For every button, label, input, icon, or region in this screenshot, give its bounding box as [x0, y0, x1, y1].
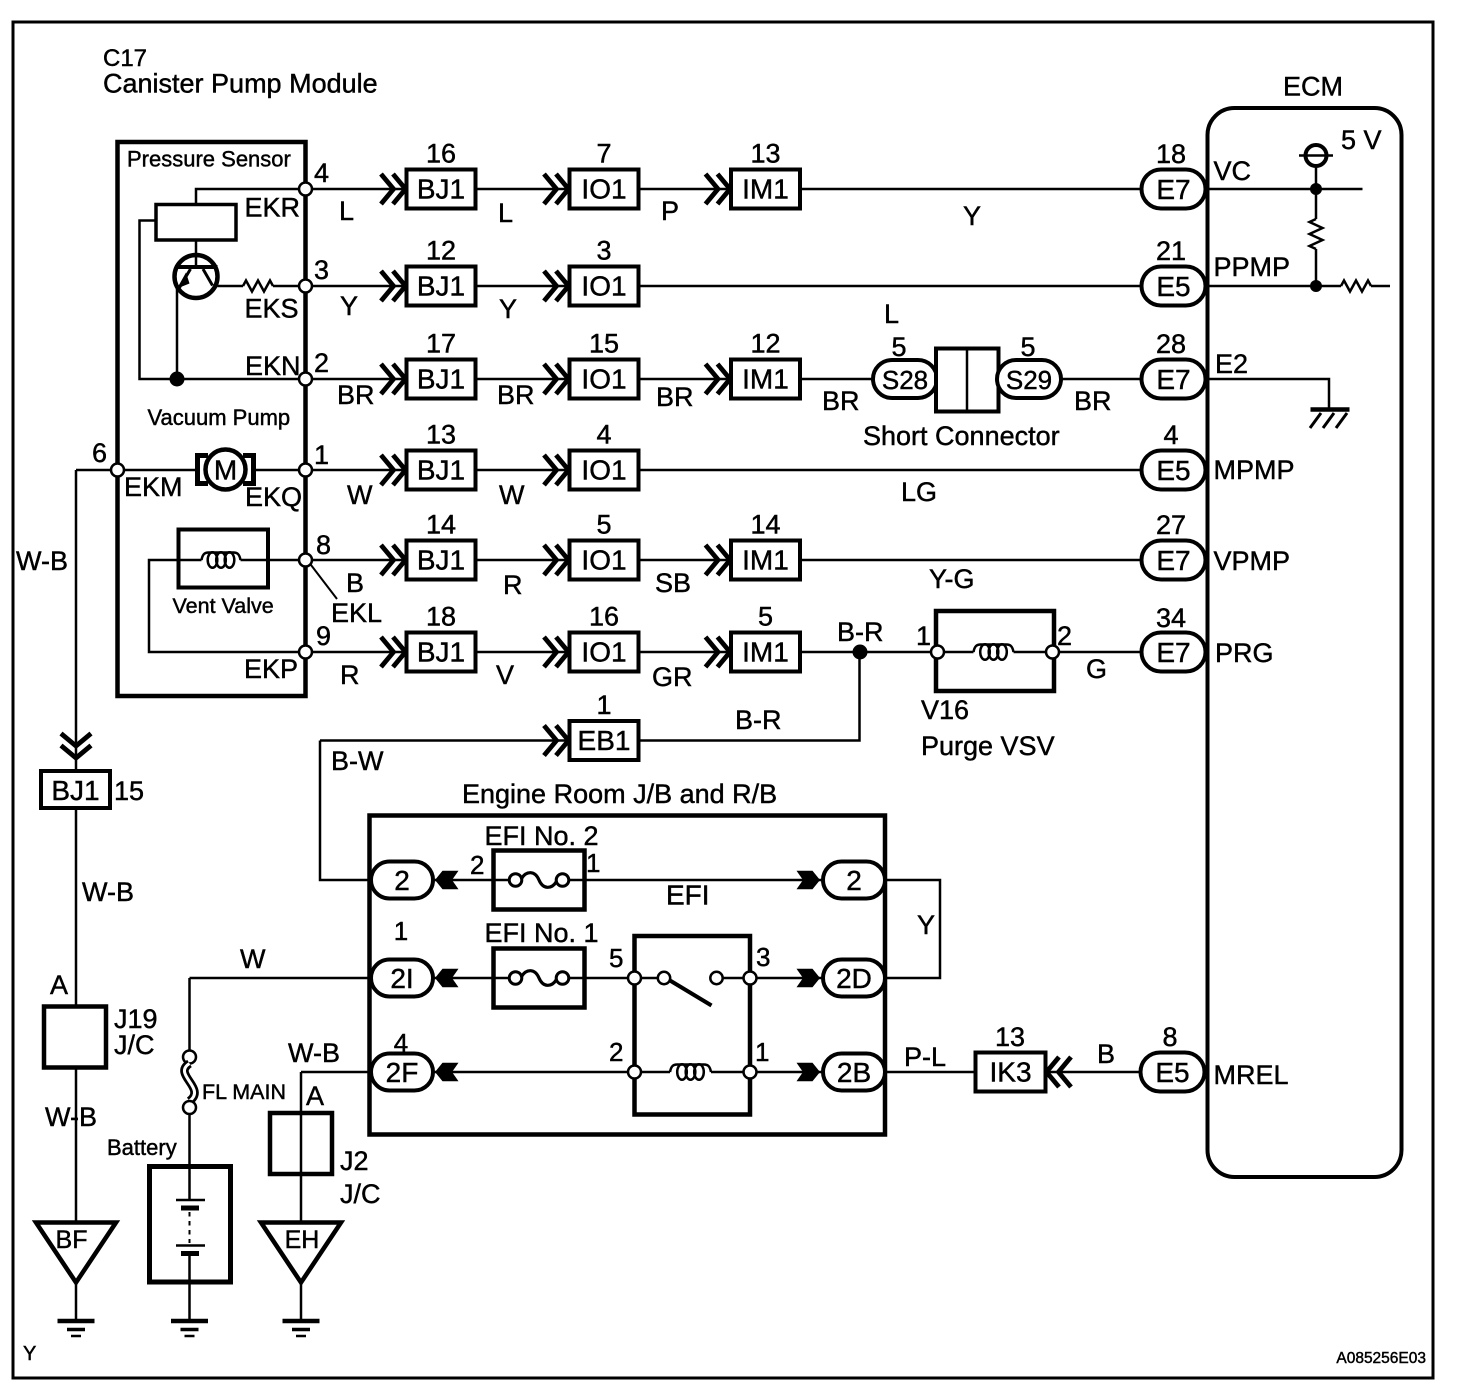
svg-text:2: 2 [470, 850, 484, 880]
svg-text:13: 13 [995, 1022, 1025, 1052]
connector BJ1 row3 [381, 364, 394, 394]
wire W from FL MAIN to 2I [190, 977, 372, 980]
ECM box [1208, 108, 1402, 1177]
svg-text:18: 18 [1156, 139, 1186, 169]
ECM terminal E7 pin 27 [1142, 541, 1206, 580]
svg-text:IO1: IO1 [581, 364, 626, 395]
svg-text:Y: Y [917, 910, 935, 940]
svg-text:5: 5 [596, 510, 611, 540]
V16 pin 1 node [931, 646, 944, 659]
svg-text:A: A [50, 970, 68, 1000]
svg-text:1: 1 [394, 916, 408, 946]
svg-text:14: 14 [750, 510, 780, 540]
svg-text:BJ1: BJ1 [417, 271, 465, 302]
engine room J/B box [370, 816, 886, 1135]
svg-text:IO1: IO1 [581, 545, 626, 576]
wire IM1 to junction B-R [800, 651, 860, 654]
junction pressure sensor common [170, 372, 185, 387]
V16 purge VSV body [936, 611, 1054, 691]
ECM terminal E7 pin 28 [1142, 360, 1206, 399]
junction J2 [270, 1113, 332, 1174]
wire EB1 to junction B-R [639, 659, 860, 741]
svg-text:J2: J2 [340, 1146, 369, 1176]
svg-text:4: 4 [1163, 420, 1178, 450]
vent valve coil [202, 553, 241, 561]
wire EKP R to BJ1 [312, 651, 407, 654]
svg-text:R: R [340, 660, 360, 690]
wire BJ1 to IO1 row2 (Y) [476, 285, 570, 288]
svg-text:A085256E03: A085256E03 [1336, 1350, 1426, 1367]
svg-text:J/C: J/C [340, 1179, 381, 1209]
relay coil [642, 1064, 743, 1080]
ground point BF [36, 1223, 116, 1283]
wire IK3 to 2B (P-L) [885, 1071, 976, 1074]
svg-text:2F: 2F [386, 1057, 419, 1088]
wire EFI fuse to relay contact (Y) [885, 880, 940, 978]
svg-text:2: 2 [394, 865, 410, 896]
svg-text:L: L [339, 196, 354, 226]
earth ground EH [283, 1319, 320, 1324]
connector IM1 row3 [706, 364, 719, 394]
junction connector BJ1 row1 [381, 174, 394, 204]
svg-text:IM1: IM1 [742, 174, 789, 205]
svg-text:15: 15 [589, 329, 619, 359]
svg-text:9: 9 [316, 621, 331, 651]
svg-text:P: P [661, 196, 679, 226]
wire EKN BR to BJ1 [312, 378, 407, 381]
svg-text:EKL: EKL [331, 598, 382, 628]
wire J2 to EH ground [300, 1174, 303, 1222]
5V power symbol [1299, 145, 1333, 166]
fuse EFI No. 1 [433, 949, 635, 1008]
ECM terminal E7 pin 34 [1142, 633, 1206, 672]
svg-text:S28: S28 [882, 365, 928, 395]
wire E5 to IK3 (B) [1046, 1071, 1141, 1074]
pin 8 node [299, 554, 312, 567]
svg-text:Purge VSV: Purge VSV [921, 731, 1055, 761]
wire IO1 to IM1 row6 (GR) [639, 651, 732, 654]
relay contact pin 3 node [744, 972, 757, 985]
junction B-R [853, 645, 868, 660]
svg-text:E5: E5 [1156, 271, 1190, 302]
wire motor to pin 1 [254, 469, 300, 472]
arrow into terminal 2F [435, 1063, 459, 1082]
svg-text:BJ1: BJ1 [51, 775, 99, 806]
svg-text:EKQ: EKQ [245, 482, 302, 512]
canister pump module C17 box [118, 142, 306, 696]
arrow into terminal 2I [435, 969, 459, 988]
svg-text:E7: E7 [1156, 637, 1190, 668]
svg-text:16: 16 [426, 139, 456, 169]
svg-text:W-B: W-B [16, 546, 68, 576]
svg-text:Y: Y [963, 201, 981, 231]
wire W-B from 2F to J2 [300, 1072, 303, 1113]
svg-text:L: L [498, 198, 513, 228]
svg-text:Vent Valve: Vent Valve [173, 594, 274, 618]
short connector body [936, 349, 999, 412]
svg-text:EKP: EKP [244, 654, 298, 684]
svg-text:14: 14 [426, 510, 456, 540]
svg-text:27: 27 [1156, 510, 1186, 540]
connector IO1 row2 [544, 271, 557, 301]
pin 6 node EKM [111, 464, 124, 477]
wire EKR L to BJ1 [312, 188, 407, 191]
svg-text:FL MAIN: FL MAIN [202, 1080, 286, 1104]
svg-text:1: 1 [596, 690, 611, 720]
svg-text:17: 17 [426, 329, 456, 359]
svg-text:VPMP: VPMP [1214, 546, 1291, 576]
battery [150, 1167, 231, 1320]
connector BJ1 row6 [381, 637, 394, 667]
wire B-W down to junction block [320, 741, 371, 881]
svg-text:5: 5 [609, 943, 623, 973]
svg-text:S29: S29 [1006, 365, 1052, 395]
relay coil pin 1 node [744, 1066, 757, 1079]
wire IM1 to ECM VPMP (Y-G) [800, 559, 1142, 562]
svg-text:B-W: B-W [331, 746, 384, 776]
terminal 2B [823, 1054, 885, 1091]
svg-text:V16: V16 [921, 695, 969, 725]
relay contact node right [710, 972, 722, 984]
svg-text:Y: Y [340, 291, 358, 321]
svg-text:W: W [240, 944, 266, 974]
wire IO1 to IM1 row3 (BR) [639, 378, 732, 381]
svg-text:Pressure Sensor: Pressure Sensor [127, 147, 291, 172]
connector IK3 [976, 1053, 1046, 1092]
svg-text:2: 2 [846, 865, 862, 896]
wire IM1 to S28 (BR) [800, 378, 873, 381]
svg-text:15: 15 [114, 776, 144, 806]
wire EKL B to BJ1 [312, 559, 407, 562]
vacuum pump motor M1 [198, 450, 254, 490]
svg-text:G: G [1086, 654, 1107, 684]
svg-text:13: 13 [750, 139, 780, 169]
svg-text:4: 4 [596, 420, 611, 450]
wire J19 to BF ground [75, 1068, 78, 1223]
wire E2 to ground [1210, 379, 1330, 408]
svg-text:5: 5 [758, 602, 773, 632]
EFI relay box [635, 936, 751, 1115]
svg-text:5: 5 [891, 332, 906, 362]
label J19 J/C [114, 1004, 158, 1060]
connector S29 [997, 360, 1061, 398]
svg-text:BR: BR [656, 382, 694, 412]
svg-text:W: W [499, 480, 525, 510]
wire IM1 to ECM VC (Y) [800, 188, 1142, 191]
svg-text:B: B [1097, 1039, 1115, 1069]
svg-text:6: 6 [92, 438, 107, 468]
relay contact pin 5 node [628, 972, 641, 985]
wire relay to 2D [757, 977, 824, 980]
svg-text:E2: E2 [1215, 349, 1248, 379]
connector BJ1 row4 [381, 455, 394, 485]
wire EKQ W to BJ1 [312, 469, 407, 472]
svg-text:12: 12 [426, 236, 456, 266]
wire pin6 to motor [124, 469, 198, 472]
wire IO1 to IM1 row1 (P) [639, 188, 732, 191]
wire VC internal [1210, 188, 1363, 191]
label J2 J/C [340, 1146, 381, 1209]
pressure sensor pump symbol [175, 255, 218, 298]
wire EH to earth [300, 1283, 303, 1320]
wire B-W to EB1 [320, 739, 570, 742]
wire PPMP internal [1210, 285, 1317, 288]
wire EKS Y to BJ1 [312, 285, 407, 288]
svg-text:BJ1: BJ1 [417, 637, 465, 668]
vent valve box [179, 530, 269, 588]
arrow into terminal 2B [797, 1063, 821, 1082]
svg-text:IK3: IK3 [989, 1057, 1031, 1088]
svg-text:3: 3 [596, 236, 611, 266]
svg-text:MREL: MREL [1214, 1060, 1289, 1090]
wire BJ1 to IO1 row1 (L) [476, 188, 570, 191]
wire sensor left branch to node 2 [140, 221, 300, 380]
svg-text:A: A [306, 1081, 324, 1111]
connector IO1 row3 [544, 364, 557, 394]
svg-text:EFI: EFI [666, 880, 710, 911]
svg-text:2I: 2I [390, 963, 413, 994]
leader line EKL [311, 565, 337, 599]
svg-text:IO1: IO1 [581, 271, 626, 302]
svg-text:IO1: IO1 [581, 637, 626, 668]
wire BJ1 to IO1 row5 (R) [476, 559, 570, 562]
wire relay to 2B [757, 1071, 824, 1074]
svg-text:2B: 2B [837, 1057, 871, 1088]
terminal 2I [371, 960, 433, 997]
chevrons into IK3 [1047, 1057, 1060, 1087]
svg-text:M: M [214, 455, 237, 486]
wire IO1 to IM1 row5 (SB) [639, 559, 732, 562]
pin 4 node [299, 183, 312, 196]
svg-text:1: 1 [755, 1037, 769, 1067]
svg-text:BR: BR [822, 386, 860, 416]
svg-text:J/C: J/C [114, 1030, 155, 1060]
svg-text:EFI No. 2: EFI No. 2 [485, 821, 599, 851]
svg-text:W-B: W-B [82, 877, 134, 907]
wire BJ1 to IO1 row3 (BR) [476, 378, 570, 381]
chassis ground E2 [1310, 410, 1350, 429]
svg-text:L: L [884, 299, 899, 329]
terminal 2D [823, 960, 885, 997]
svg-text:PRG: PRG [1215, 638, 1274, 668]
svg-text:1: 1 [916, 621, 931, 651]
junction VC [1310, 183, 1322, 195]
wire W-B main vertical [75, 470, 78, 771]
V16 pin 2 node [1046, 646, 1059, 659]
svg-text:BJ1: BJ1 [417, 174, 465, 205]
wire BF to earth [75, 1283, 78, 1320]
svg-text:Y: Y [499, 294, 517, 324]
svg-text:IM1: IM1 [742, 364, 789, 395]
svg-text:8: 8 [316, 530, 331, 560]
svg-text:ECM: ECM [1283, 72, 1343, 102]
svg-text:IM1: IM1 [742, 637, 789, 668]
relay contact wires [641, 977, 744, 980]
junction PPMP [1310, 280, 1322, 292]
wire 2F to relay coil [433, 1071, 635, 1074]
svg-text:8: 8 [1162, 1022, 1177, 1052]
wire IO1 to ECM MPMP (LG) [639, 469, 1142, 472]
svg-text:Battery: Battery [107, 1135, 177, 1160]
svg-text:13: 13 [426, 420, 456, 450]
svg-text:Canister Pump Module: Canister Pump Module [103, 69, 378, 99]
connector IO1 row5 [544, 545, 557, 575]
svg-text:EKR: EKR [245, 193, 301, 223]
terminal 2F [371, 1054, 433, 1091]
svg-text:EKS: EKS [245, 294, 299, 324]
svg-text:E5: E5 [1156, 455, 1190, 486]
wire W from 2I to FL MAIN [188, 978, 191, 1051]
terminal 2 left [371, 862, 433, 899]
terminal 2 right [823, 862, 885, 899]
svg-text:SB: SB [655, 568, 691, 598]
svg-text:Short Connector: Short Connector [863, 421, 1060, 451]
relay switch blade [670, 981, 712, 1006]
wire BJ1 to IO1 row6 (V) [476, 651, 570, 654]
wire BJ1 to IO1 row4 (W) [476, 469, 570, 472]
wire IO1 to ECM PPMP (L) [639, 285, 1142, 288]
svg-text:EB1: EB1 [578, 725, 631, 756]
svg-text:5: 5 [1020, 332, 1035, 362]
svg-text:16: 16 [589, 602, 619, 632]
svg-text:1: 1 [314, 440, 329, 470]
svg-text:LG: LG [901, 477, 937, 507]
svg-text:12: 12 [750, 329, 780, 359]
svg-text:2D: 2D [836, 963, 872, 994]
svg-text:E7: E7 [1156, 364, 1190, 395]
svg-text:Vacuum Pump: Vacuum Pump [148, 405, 291, 430]
connector C17 title [103, 45, 378, 99]
relay contact node left [658, 972, 670, 984]
wire BJ1 to J19 [75, 808, 78, 1007]
svg-text:EFI No. 1: EFI No. 1 [485, 918, 599, 948]
svg-text:4: 4 [314, 158, 329, 188]
pin 9 node [299, 646, 312, 659]
wire W-B from pin 6 [76, 469, 111, 472]
ground point EH [261, 1223, 341, 1283]
svg-text:2: 2 [1057, 621, 1072, 651]
svg-text:IM1: IM1 [742, 545, 789, 576]
ECM terminal E5 pin 4 [1142, 451, 1206, 490]
connector IM1 row6 [706, 637, 719, 667]
svg-text:E5: E5 [1155, 1057, 1189, 1088]
wire junction to V16 pin1 [860, 651, 931, 654]
svg-text:BJ1: BJ1 [417, 455, 465, 486]
wire vent valve to pin 8 [241, 559, 300, 562]
resistor EKS wire to node 3 [218, 281, 300, 292]
wire V16 to ECM PRG (G) [1059, 651, 1142, 654]
wire node 4 to pressure sensor [196, 189, 306, 205]
svg-text:EH: EH [285, 1226, 320, 1254]
fusible link FL MAIN [183, 1051, 196, 1115]
connector IM1 row1 [706, 174, 719, 204]
svg-text:W-B: W-B [45, 1102, 97, 1132]
svg-text:W-B: W-B [288, 1038, 340, 1068]
earth ground battery [171, 1319, 208, 1324]
svg-text:21: 21 [1156, 236, 1186, 266]
arrow into terminal 2 right [797, 871, 821, 890]
svg-text:BJ1: BJ1 [417, 364, 465, 395]
svg-text:V: V [496, 660, 514, 690]
svg-text:IO1: IO1 [581, 455, 626, 486]
svg-text:B: B [346, 568, 364, 598]
fuse EFI No. 2 [433, 851, 824, 910]
svg-text:R: R [503, 570, 523, 600]
resistor ECM pull-up [1310, 195, 1323, 287]
svg-text:EKN: EKN [245, 351, 301, 381]
connector IO1 row6 [544, 637, 557, 667]
svg-text:IO1: IO1 [581, 174, 626, 205]
pin 2 node [299, 373, 312, 386]
svg-text:B-R: B-R [735, 705, 782, 735]
wire FL MAIN to battery [188, 1114, 191, 1199]
svg-text:2: 2 [609, 1037, 623, 1067]
svg-text:E7: E7 [1156, 545, 1190, 576]
svg-text:3: 3 [756, 942, 770, 972]
connector EB1 [544, 726, 557, 756]
svg-text:EKM: EKM [124, 472, 183, 502]
svg-text:PPMP: PPMP [1214, 252, 1291, 282]
ECM terminal E7 pin 18 [1142, 170, 1206, 209]
svg-text:BJ1: BJ1 [417, 545, 465, 576]
svg-text:BR: BR [497, 380, 535, 410]
svg-text:W: W [347, 480, 373, 510]
wire W-B from J2 to 2F [301, 1071, 371, 1074]
connector IO1 row1 [544, 174, 557, 204]
svg-text:Y-G: Y-G [929, 564, 975, 594]
svg-text:VC: VC [1214, 156, 1252, 186]
arrow into terminal 2 [435, 871, 459, 890]
svg-text:Engine Room J/B and R/B: Engine Room J/B and R/B [462, 779, 777, 809]
ECM terminal E5 pin 21 [1142, 267, 1206, 306]
wire sensor to pump [195, 240, 198, 267]
svg-text:2: 2 [314, 348, 329, 378]
earth ground BF [58, 1319, 95, 1324]
svg-text:34: 34 [1156, 603, 1186, 633]
svg-text:3: 3 [314, 255, 329, 285]
svg-text:MPMP: MPMP [1214, 455, 1295, 485]
chevrons into BJ1 junction [61, 734, 91, 747]
svg-text:BR: BR [337, 380, 375, 410]
svg-text:28: 28 [1156, 329, 1186, 359]
pin 1 node [299, 464, 312, 477]
svg-text:P-L: P-L [904, 1042, 946, 1072]
pin 3 node [299, 280, 312, 293]
svg-text:BF: BF [56, 1226, 88, 1254]
connector BJ1 row5 [381, 545, 394, 575]
ECM terminal E5 pin 8 [1141, 1053, 1205, 1092]
svg-text:7: 7 [596, 139, 611, 169]
svg-text:Y: Y [23, 1343, 36, 1365]
svg-text:BR: BR [1074, 386, 1112, 416]
svg-text:B-R: B-R [837, 617, 884, 647]
V16 coil [944, 644, 1046, 660]
wire vent valve loop to pin 9 [149, 560, 299, 652]
connector S28 [873, 360, 937, 398]
wire S29 to ECM E2 (BR) [1061, 378, 1142, 381]
relay coil pin 2 node [628, 1066, 641, 1079]
svg-text:GR: GR [652, 662, 693, 692]
junction connector BJ1 pin 15 [41, 771, 110, 808]
svg-text:18: 18 [426, 602, 456, 632]
connector IO1 row4 [544, 455, 557, 485]
arrow into terminal 2D [797, 969, 821, 988]
pressure sensor body [156, 205, 236, 241]
connector IM1 row5 [706, 545, 719, 575]
connector BJ1 row2 [381, 271, 394, 301]
junction J19 [44, 1007, 106, 1068]
svg-text:5 V: 5 V [1341, 125, 1382, 155]
